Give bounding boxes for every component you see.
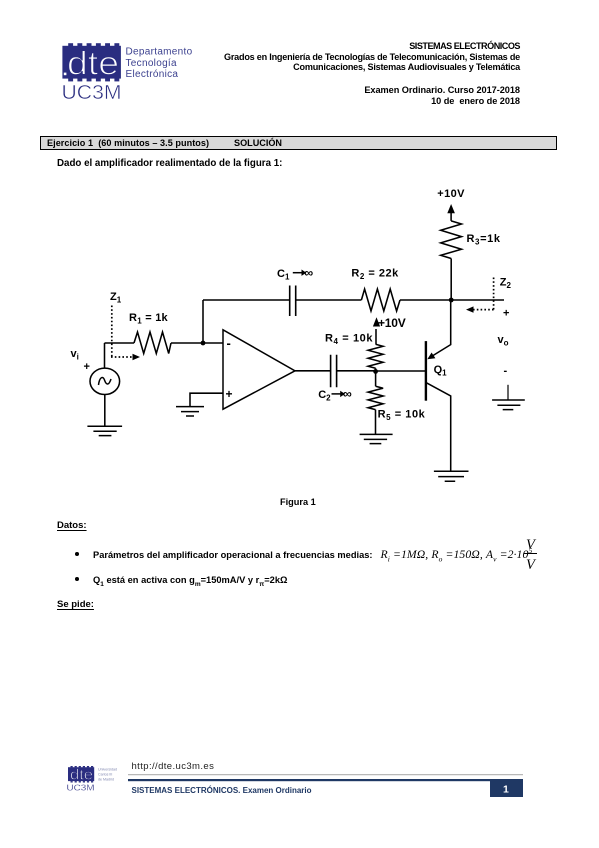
svg-text:Q1: Q1 [434, 364, 448, 378]
svg-text:R1 = 1k: R1 = 1k [129, 312, 169, 326]
svg-text:de Madrid: de Madrid [98, 778, 114, 782]
svg-text:-: - [227, 336, 231, 351]
svg-text:+10V: +10V [437, 188, 465, 200]
svg-text:+10V: +10V [378, 316, 406, 330]
svg-text:C1: C1 [277, 268, 290, 282]
svg-text:SISTEMAS ELECTRÓNICOS. Examen: SISTEMAS ELECTRÓNICOS. Examen Ordinario [132, 786, 312, 795]
svg-text:http://dte.uc3m.es: http://dte.uc3m.es [132, 761, 215, 772]
svg-text:C2: C2 [318, 389, 331, 403]
svg-text:vi: vi [71, 348, 79, 362]
svg-text:R2 = 22k: R2 = 22k [351, 268, 399, 282]
svg-text:+: + [226, 387, 233, 401]
svg-text:-: - [504, 365, 508, 377]
svg-text:UC3M: UC3M [67, 783, 95, 793]
svg-text:Z2: Z2 [500, 277, 512, 291]
svg-text:∞: ∞ [343, 387, 352, 401]
svg-text:1: 1 [503, 784, 509, 796]
svg-text:∞: ∞ [304, 266, 313, 280]
svg-text:+: + [503, 308, 509, 320]
svg-text:+: + [84, 361, 90, 373]
svg-text:R5 = 10k: R5 = 10k [378, 409, 426, 423]
svg-text:Z1: Z1 [110, 291, 122, 305]
svg-text:R4 = 10k: R4 = 10k [325, 333, 373, 347]
svg-text:dte: dte [70, 768, 93, 784]
svg-text:vo: vo [498, 334, 509, 348]
svg-text:Universidad: Universidad [98, 768, 117, 772]
svg-text:Carlos III: Carlos III [98, 773, 112, 777]
svg-text:R3=1k: R3=1k [467, 233, 501, 247]
